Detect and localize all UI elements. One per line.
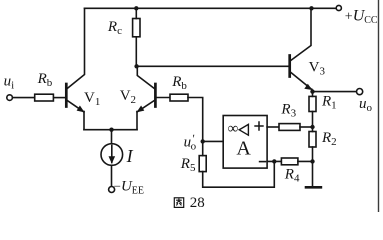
op-amp plus input label — [254, 121, 263, 130]
op-amp triangle symbol — [239, 124, 248, 135]
junction ground node R2/R4 — [310, 159, 314, 163]
junction inverting input node — [272, 159, 276, 163]
resistor R1 — [309, 96, 316, 111]
wire V2 collector riser — [137, 66, 155, 89]
wire V2 base to Rb2 — [155, 97, 170, 99]
junction Rc-bottom / V2 collector / V3 base — [134, 64, 138, 68]
wire R3 to divider node — [300, 126, 313, 128]
svg-text:I: I — [126, 146, 134, 166]
wire u_o' to op-amp — [203, 140, 223, 142]
wire u_o' to R5 — [202, 141, 204, 155]
junction divider node R1/R2/R3 — [310, 125, 314, 129]
wire ground lead — [312, 161, 314, 186]
op-amp minus input label — [259, 161, 266, 163]
transistor V1 — [66, 84, 84, 112]
svg-text:∞: ∞ — [228, 121, 239, 137]
wire op-amp plus input — [267, 126, 279, 128]
wire V1 collector riser — [67, 8, 85, 89]
svg-text:A: A — [236, 138, 251, 160]
wire V1 emitter to tail — [83, 112, 85, 130]
resistor Rb (left) — [35, 94, 54, 101]
terminal +Ucc — [336, 5, 341, 10]
terminal u_i — [7, 95, 13, 101]
wire emitter tail joining — [84, 129, 137, 131]
resistor R4 — [281, 158, 298, 165]
wire base rail to V3 — [137, 65, 290, 67]
wire top supply rail — [85, 7, 337, 9]
current source I — [101, 130, 123, 187]
transistor V2 — [136, 84, 155, 112]
wire divider node to R2 — [312, 127, 314, 132]
terminal -Uee — [109, 187, 115, 193]
caption figure 28 — [174, 195, 205, 211]
junction V3-collector on rail — [309, 6, 313, 10]
wire R4 to ground node — [298, 160, 313, 162]
resistor Rc — [133, 19, 140, 37]
junction tail node — [109, 128, 113, 132]
op-amp A box — [223, 116, 267, 169]
resistor R5 — [199, 156, 206, 172]
junction node u_o' — [201, 139, 205, 143]
resistor R3 — [279, 124, 300, 131]
wire V2 emitter to tail — [136, 112, 138, 130]
junction output node — [310, 89, 314, 93]
resistor Rb2 — [170, 94, 188, 101]
wire to u_o terminal — [313, 91, 357, 93]
ground — [306, 186, 321, 189]
wire output node to R1 — [312, 92, 314, 97]
wire Rc top lead — [135, 8, 137, 18]
wire R1 to divider node — [312, 112, 314, 128]
terminal u_o — [357, 89, 363, 95]
wire V3 emitter to output node — [311, 90, 314, 92]
wire op-amp minus input — [267, 160, 281, 162]
wire R5 to feedback bottom — [203, 161, 275, 187]
wire Rb2 to u_o' node — [188, 98, 203, 142]
wire Rc bottom lead — [135, 37, 137, 67]
svg-text:28: 28 — [190, 195, 205, 211]
wire u_i to V1 base — [12, 97, 34, 99]
wire R2 to ground node — [312, 147, 314, 161]
junction Rc-top on rail — [134, 6, 138, 10]
resistor R2 — [309, 132, 316, 148]
transistor V3 — [290, 8, 313, 90]
